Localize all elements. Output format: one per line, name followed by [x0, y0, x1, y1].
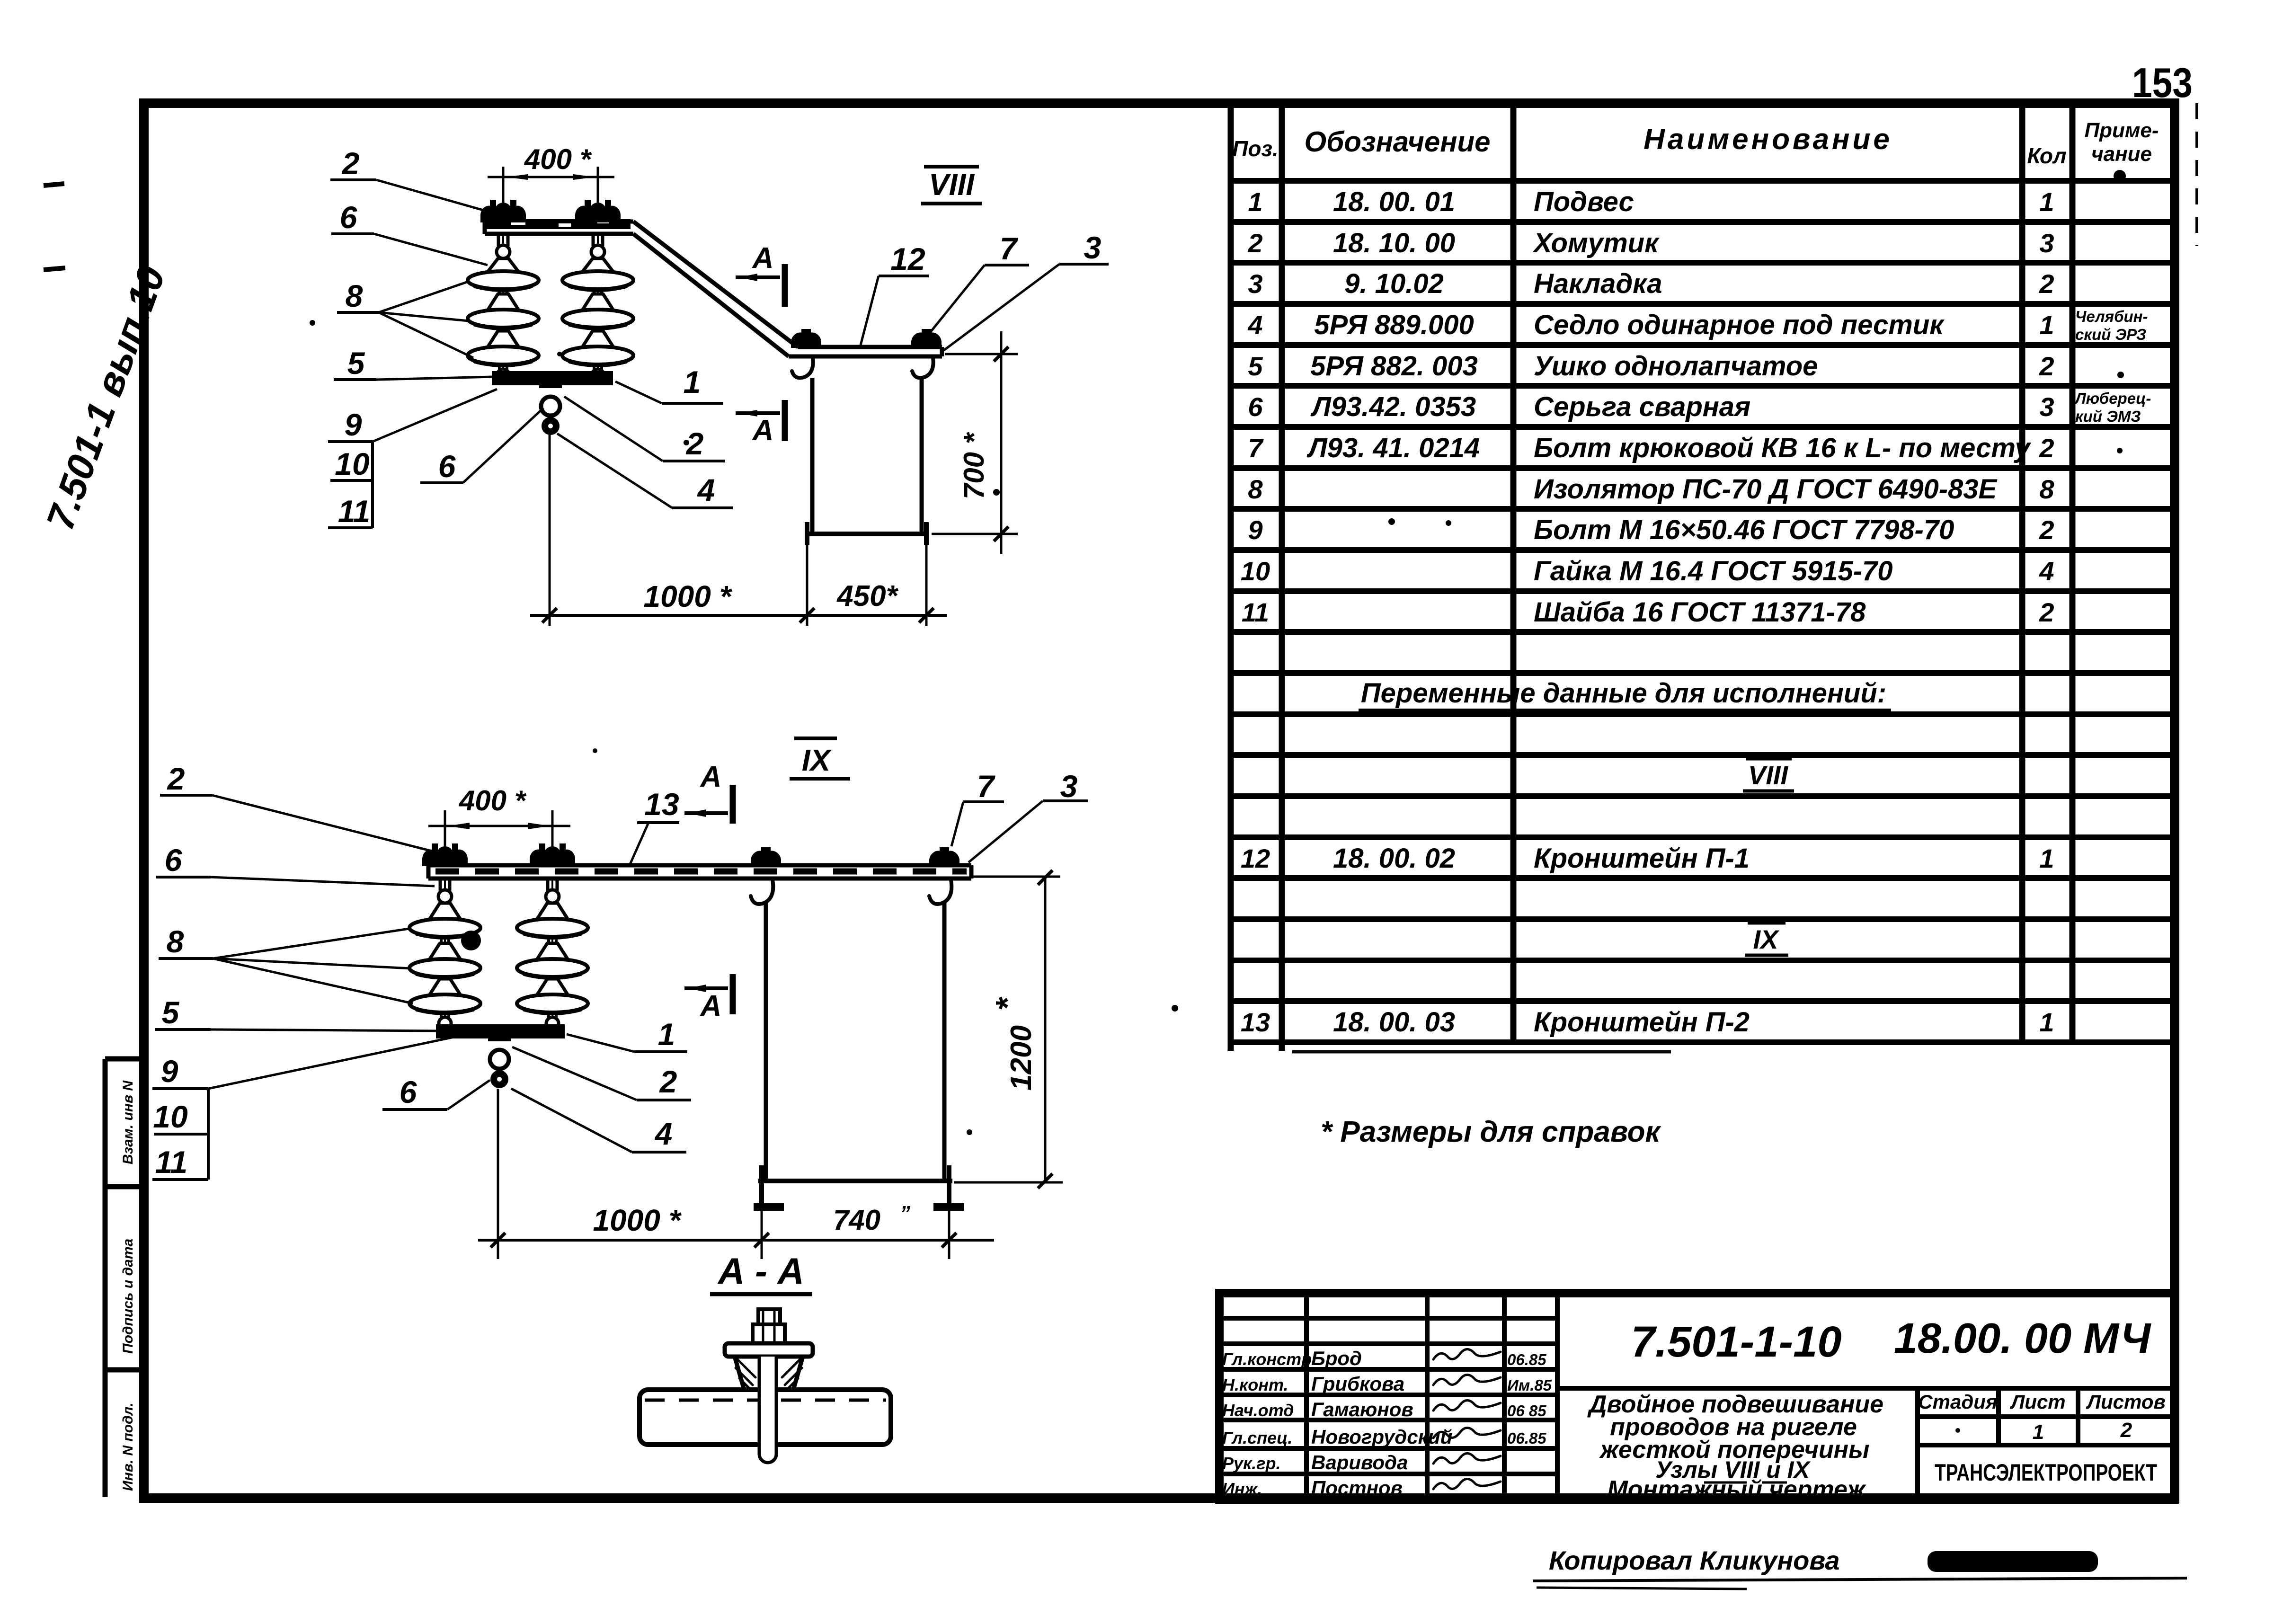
margin tick marks [44, 184, 64, 186]
svg-text:8: 8 [167, 924, 184, 959]
svg-text:3: 3 [2039, 228, 2054, 258]
svg-text:18. 00. 02: 18. 00. 02 [1333, 843, 1455, 874]
scan specks [310, 320, 315, 326]
view VIII suspension beam pos.1 [485, 220, 633, 224]
svg-text:* Размеры для справок: * Размеры для справок [1321, 1116, 1661, 1148]
svg-text:740: 740 [833, 1204, 880, 1236]
svg-text:Лист: Лист [2009, 1391, 2065, 1413]
svg-text:Монтажный чертеж: Монтажный чертеж [1607, 1476, 1866, 1503]
svg-text:9: 9 [161, 1054, 178, 1089]
svg-text:2: 2 [2039, 433, 2054, 463]
svg-text:06 85: 06 85 [1507, 1402, 1546, 1420]
svg-text:2: 2 [2039, 515, 2054, 545]
svg-text:4: 4 [2039, 556, 2054, 586]
svg-text:10: 10 [1241, 556, 1270, 586]
svg-text:Кол: Кол [2027, 143, 2066, 168]
svg-text:1000 *: 1000 * [593, 1203, 682, 1237]
svg-text:1: 1 [658, 1017, 675, 1052]
svg-text:VIII: VIII [929, 168, 975, 202]
svg-text:Гл.спец.: Гл.спец. [1222, 1428, 1292, 1447]
view IX bracket frame verticals [764, 902, 768, 1181]
svg-text:6: 6 [1248, 392, 1263, 422]
svg-text:5: 5 [162, 995, 180, 1030]
view VIII dim 1000 and 450 [806, 545, 808, 626]
svg-text:6: 6 [340, 200, 358, 235]
view IX dim 1200 [972, 876, 1060, 878]
svg-text:12: 12 [1241, 843, 1270, 873]
view VIII hook bolt pos.7 left [792, 330, 820, 347]
view IX beam bracket P-2 pos.13 [428, 863, 971, 868]
svg-text:9. 10.02: 9. 10.02 [1344, 268, 1444, 299]
svg-text:1000 *: 1000 * [643, 579, 732, 613]
view VIII section mark A bottom [736, 411, 780, 415]
table column tails below bottom [1228, 1042, 1234, 1051]
svg-text:4: 4 [697, 472, 715, 507]
section A-A bolt and nuts [758, 1309, 780, 1325]
svg-text:2: 2 [659, 1064, 677, 1099]
view IX insulator string right pos.8 [551, 879, 553, 1020]
svg-text:12: 12 [890, 241, 925, 276]
svg-text:18. 10. 00: 18. 10. 00 [1333, 228, 1455, 258]
svg-text:10: 10 [153, 1099, 188, 1134]
svg-text:Листов: Листов [2086, 1391, 2166, 1413]
svg-text:1: 1 [1248, 187, 1262, 217]
view IX serga pos.6 [488, 1024, 511, 1041]
parts table vertical lines [1228, 103, 1234, 1042]
svg-text:Болт М 16×50.46 ГОСТ 7798-70: Болт М 16×50.46 ГОСТ 7798-70 [1534, 515, 1954, 545]
svg-text:Варивода: Варивода [1311, 1451, 1408, 1473]
view IX hanging wire [497, 1089, 499, 1252]
svg-text:Нач.отд: Нач.отд [1222, 1401, 1294, 1420]
view VIII serga pos.6 [539, 371, 562, 388]
svg-text:6: 6 [165, 843, 183, 878]
svg-text:06.85: 06.85 [1507, 1429, 1546, 1447]
svg-text:Люберец-: Люберец- [2074, 390, 2151, 407]
view VIII dim 400 [502, 167, 505, 208]
svg-text:чание: чание [2091, 142, 2152, 166]
title block outer border [1219, 1293, 2175, 1500]
view VIII hanging wire [549, 434, 551, 626]
svg-text:ТРАНСЭЛЕКТРОПРОЕКТ: ТРАНСЭЛЕКТРОПРОЕКТ [1935, 1459, 2157, 1486]
svg-text:Переменные данные для исполн: Переменные данные для исполнений: [1361, 678, 1886, 709]
svg-text:Брод: Брод [1311, 1347, 1362, 1369]
svg-text:7.501-1-10: 7.501-1-10 [1631, 1318, 1842, 1366]
svg-text:Наименование: Наименование [1643, 123, 1892, 156]
svg-text:Новогрудский: Новогрудский [1311, 1426, 1452, 1448]
svg-text:2: 2 [2120, 1419, 2132, 1442]
svg-text:1: 1 [2033, 1420, 2044, 1444]
svg-text:Поз.: Поз. [1232, 136, 1278, 161]
section A-A saddle body with hatching [735, 1357, 803, 1390]
svg-text:Стадия: Стадия [1918, 1391, 1997, 1413]
svg-text:1: 1 [2039, 1007, 2054, 1037]
svg-text:А: А [752, 242, 774, 275]
svg-text:А: А [700, 990, 722, 1022]
svg-text:11: 11 [155, 1145, 188, 1180]
svg-text:Им.85: Им.85 [1507, 1376, 1552, 1394]
svg-text:Хомутик: Хомутик [1532, 228, 1660, 258]
svg-text:Гамаюнов: Гамаюнов [1311, 1398, 1413, 1420]
svg-text:2: 2 [167, 761, 185, 796]
svg-text:5: 5 [1248, 351, 1263, 381]
svg-text:700 *: 700 * [958, 432, 990, 499]
view VIII clamp pos.2 right [576, 204, 620, 222]
left margin stamp boxes [103, 1059, 108, 1497]
svg-text:кий ЭМЗ: кий ЭМЗ [2075, 408, 2141, 425]
svg-text:Приме-: Приме- [2084, 119, 2159, 142]
svg-text:Болт крюковой КВ 16 к L- по м: Болт крюковой КВ 16 к L- по месту [1534, 433, 2032, 463]
svg-text:Постнов: Постнов [1311, 1477, 1403, 1499]
view VIII insulator string right pos.8 [597, 234, 599, 372]
svg-text:Челябин-: Челябин- [2075, 308, 2148, 325]
svg-text:1: 1 [2039, 843, 2054, 873]
view VIII clamp pos.2 left [481, 204, 525, 222]
svg-text:IX: IX [802, 743, 832, 777]
svg-text:Подпись и дата: Подпись и дата [120, 1239, 136, 1354]
svg-text:06.85: 06.85 [1507, 1351, 1546, 1368]
svg-text:13: 13 [1241, 1007, 1270, 1037]
svg-text:9: 9 [345, 407, 362, 442]
svg-text:Инв. N подл.: Инв. N подл. [120, 1402, 136, 1491]
svg-text:18.00. 00 МЧ: 18.00. 00 МЧ [1894, 1315, 2152, 1362]
svg-text:18. 00. 01: 18. 00. 01 [1333, 186, 1455, 217]
svg-text:Накладка: Накладка [1534, 268, 1662, 299]
svg-text:Кронштейн П-1: Кронштейн П-1 [1534, 843, 1750, 874]
view VIII insulator string left pos.8 [502, 234, 504, 372]
svg-text:2: 2 [341, 146, 360, 181]
svg-text:Копировал Кликунова: Копировал Кликунова [1549, 1545, 1840, 1575]
title block right sub horizontals [1918, 1414, 2175, 1419]
view IX hook bolt pos.7 right [930, 848, 959, 865]
svg-text:8: 8 [1248, 474, 1263, 504]
svg-text:Грибкова: Грибкова [1311, 1373, 1404, 1395]
svg-text:Ушко однолапчатое: Ушко однолапчатое [1534, 351, 1818, 382]
svg-text:11: 11 [1242, 597, 1269, 627]
svg-text:Н.конт.: Н.конт. [1222, 1375, 1288, 1394]
svg-text:Шайба 16 ГОСТ 11371-7: Шайба 16 ГОСТ 11371-78 [1534, 597, 1866, 628]
svg-text:Гл.констр: Гл.констр [1222, 1349, 1312, 1369]
svg-text:2: 2 [2039, 597, 2054, 627]
view IX hook bolt pos.7 left [752, 848, 780, 865]
svg-text:4: 4 [1247, 310, 1262, 340]
svg-text:А: А [700, 761, 722, 793]
svg-text:1200: 1200 [1005, 1025, 1038, 1091]
svg-text:Л93.42. 0353: Л93.42. 0353 [1310, 391, 1476, 422]
view VIII hook bolt pos.7 right [912, 330, 941, 347]
svg-text:Подвес: Подвес [1534, 186, 1634, 217]
title block horizontal lines left section [1219, 1316, 1557, 1321]
view IX clamp pos.2 mid [531, 847, 574, 865]
title block main horizontal line under doc number [1557, 1386, 2175, 1391]
svg-text:9: 9 [1248, 515, 1262, 545]
title block right sub verticals [1915, 1388, 1920, 1500]
svg-text:450*: 450* [836, 580, 898, 612]
svg-text:3: 3 [1248, 269, 1262, 299]
svg-text:Изолятор ПС-70 Д ГОСТ 6490-: Изолятор ПС-70 Д ГОСТ 6490-83Е [1534, 474, 1998, 505]
svg-text:8: 8 [2039, 474, 2054, 504]
svg-text:2: 2 [2039, 269, 2054, 299]
stamp smudge [1928, 1551, 2098, 1572]
svg-text:7: 7 [1000, 231, 1019, 266]
svg-text:7: 7 [977, 769, 996, 804]
parts table horizontal lines [1231, 178, 2175, 184]
view VIII yoke plate pos.1 [492, 371, 613, 385]
section A-A stud bolt [759, 1357, 776, 1463]
drawing frame border [144, 103, 2175, 1498]
section A-A rigel beam [640, 1390, 891, 1445]
svg-text:11: 11 [338, 494, 371, 529]
svg-text:400 *: 400 * [459, 785, 527, 816]
section A-A saddle plate pos.4 [725, 1343, 813, 1357]
svg-text:4: 4 [654, 1116, 673, 1151]
svg-text:1: 1 [684, 364, 701, 399]
view IX section mark A bottom [684, 986, 728, 990]
svg-text:А - А: А - А [717, 1250, 804, 1292]
svg-text:2: 2 [1247, 228, 1262, 258]
svg-text:3: 3 [1084, 230, 1102, 265]
svg-text:13: 13 [644, 787, 679, 822]
svg-text:3: 3 [2039, 392, 2054, 422]
svg-text:10: 10 [335, 446, 370, 481]
view VIII dim 700 [945, 353, 1018, 355]
svg-text:Л93. 41. 0214: Л93. 41. 0214 [1306, 433, 1480, 463]
svg-text:Обозначение: Обозначение [1304, 126, 1490, 158]
svg-text:18. 00. 03: 18. 00. 03 [1333, 1007, 1455, 1038]
view IX dim 1000 and 740 [497, 1089, 499, 1259]
svg-text:400 *: 400 * [524, 143, 592, 175]
svg-text:1: 1 [2039, 187, 2054, 217]
view IX insulator string left pos.8 [444, 879, 446, 1020]
svg-text:5РЯ 882. 003: 5РЯ 882. 003 [1310, 351, 1478, 382]
svg-text:Кронштейн П-2: Кронштейн П-2 [1534, 1007, 1750, 1038]
view VIII beam fill dashes [486, 219, 631, 229]
view VIII bracket P-1 frame pos.12 [810, 378, 815, 534]
svg-text:5: 5 [347, 346, 365, 381]
view IX yoke plate pos.1 [436, 1024, 565, 1038]
view IX dim 400 [444, 810, 446, 852]
svg-text:6: 6 [438, 449, 456, 484]
svg-text:*: * [989, 997, 1026, 1011]
svg-text:2: 2 [2039, 351, 2054, 381]
svg-text:1: 1 [2039, 310, 2054, 340]
svg-text:7: 7 [1248, 433, 1264, 463]
svg-text:3: 3 [1060, 769, 1078, 804]
svg-text:VIII: VIII [1748, 760, 1788, 790]
svg-text:Взам. инв N: Взам. инв N [120, 1080, 136, 1164]
right margin dashed line [2195, 103, 2198, 246]
svg-text:5РЯ 889.000: 5РЯ 889.000 [1314, 310, 1474, 340]
svg-text:IX: IX [1753, 924, 1780, 954]
svg-text:”: ” [900, 1202, 910, 1225]
title block vertical lines left section [1304, 1293, 1309, 1500]
svg-text:ский ЭРЗ: ский ЭРЗ [2075, 326, 2146, 343]
svg-text:Серьга сварная: Серьга сварная [1534, 391, 1750, 422]
view IX clamp pos.2 left [423, 847, 467, 865]
svg-text:А: А [752, 414, 774, 447]
svg-text:Рук.гр.: Рук.гр. [1222, 1454, 1281, 1473]
svg-text:6: 6 [400, 1074, 418, 1109]
svg-text:Инж.: Инж. [1222, 1479, 1262, 1499]
svg-text:8: 8 [346, 278, 363, 313]
svg-text:Гайка М 16.4 ГОСТ 5915-70: Гайка М 16.4 ГОСТ 5915-70 [1534, 556, 1892, 586]
svg-text:Седло одинарное под пестик: Седло одинарное под пестик [1534, 310, 1945, 340]
